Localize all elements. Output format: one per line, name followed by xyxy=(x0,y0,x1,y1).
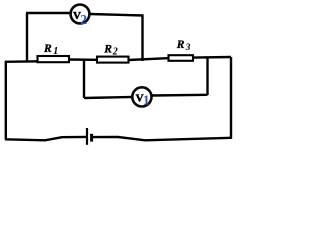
wire V2 right riser down to node between R2 and R3 xyxy=(141,15,143,61)
wire between R2 and R3 xyxy=(129,58,168,60)
wire bottom rail right of battery xyxy=(93,137,232,140)
node T-junction down to V1 (left) xyxy=(83,60,85,99)
svg-text:2: 2 xyxy=(112,47,118,58)
wire top horizontal left (corner to V2) xyxy=(26,12,70,14)
battery short thick plate (right) xyxy=(90,134,93,142)
resistor R3 xyxy=(169,55,194,61)
voltmeter V2 xyxy=(71,5,90,24)
wire top-left vertical (V2 left lead down to main rail) xyxy=(26,13,28,62)
svg-text:R: R xyxy=(43,43,52,55)
wire bottom rail left of battery xyxy=(5,137,87,140)
resistor R2 xyxy=(97,57,129,63)
wire V1 branch horizontal left xyxy=(84,97,132,98)
svg-text:2: 2 xyxy=(80,12,87,27)
wire top horizontal right (V2 to corner) xyxy=(90,14,144,16)
wire right border xyxy=(230,57,232,139)
svg-text:1: 1 xyxy=(143,92,150,107)
wire left border xyxy=(5,61,7,140)
wire main rail left segment xyxy=(5,60,39,63)
svg-text:1: 1 xyxy=(53,46,58,57)
wire right of R3 to top-right corner xyxy=(193,56,231,59)
wire V1 to right riser xyxy=(152,94,208,97)
svg-text:R: R xyxy=(176,39,185,51)
svg-text:3: 3 xyxy=(185,43,191,53)
svg-text:R: R xyxy=(103,43,112,55)
resistor R1 xyxy=(38,56,70,62)
voltmeter V1 xyxy=(132,87,151,106)
battery long plate (left) xyxy=(86,128,88,145)
wire between R1 and R2 xyxy=(69,58,97,61)
wire V1 right riser (node after R3 down to V1 right lead) xyxy=(206,57,208,95)
